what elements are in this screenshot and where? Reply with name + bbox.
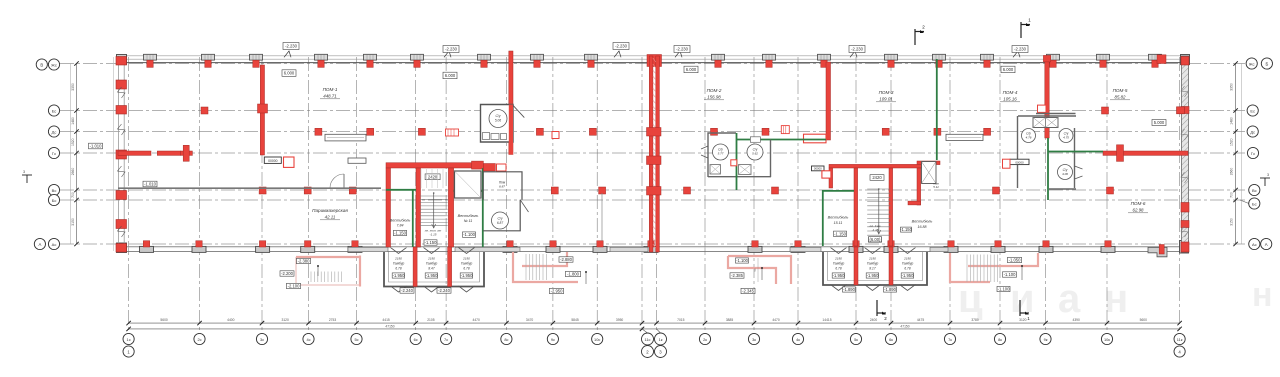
svg-text:-1.150: -1.150 bbox=[394, 231, 407, 236]
exterior stair S2 level box 1 bbox=[1008, 257, 1022, 262]
column red block bottom wall bbox=[1043, 241, 1049, 247]
svg-text:н: н bbox=[1252, 276, 1273, 314]
level box vestibule left bbox=[394, 230, 407, 235]
expansion joint block bbox=[647, 187, 662, 196]
level box vestibule right 1 bbox=[834, 231, 847, 236]
wall break mark left wall bbox=[118, 124, 126, 135]
column red block left wall bbox=[116, 57, 127, 66]
red fixture box ПОМ-4 top bbox=[1038, 105, 1047, 112]
svg-text:3885: 3885 bbox=[726, 318, 734, 322]
svg-text:47150: 47150 bbox=[385, 324, 394, 328]
axis bubble Бс left bbox=[48, 194, 59, 205]
axis line 5к bbox=[855, 57, 857, 333]
axis bubble 4с bottom bbox=[303, 333, 314, 344]
storage room dark walls bbox=[455, 171, 482, 198]
axis bubble 9с bottom bbox=[547, 333, 558, 344]
window pier column top wall bbox=[364, 54, 377, 60]
column base bottom wall bbox=[748, 246, 762, 252]
stair vestibule red wall top bbox=[386, 163, 481, 168]
svg-text:а: а bbox=[1058, 277, 1081, 321]
partition wall Парикмахерская bbox=[118, 187, 381, 189]
axis bubble 1 bottom overall bbox=[123, 346, 134, 357]
axis line В bbox=[60, 189, 1245, 191]
svg-text:16.88: 16.88 bbox=[918, 225, 927, 229]
svg-text:Б: Б bbox=[1265, 61, 1268, 66]
svg-text:2: 2 bbox=[884, 316, 887, 321]
svg-text:7к: 7к bbox=[948, 337, 952, 342]
svg-text:3350: 3350 bbox=[1230, 83, 1234, 91]
red fixture on wall ПОМ-5 bbox=[1117, 145, 1124, 162]
level dimension box above top wall bbox=[674, 46, 690, 53]
svg-text:1520: 1520 bbox=[71, 138, 75, 146]
svg-text:3780: 3780 bbox=[971, 318, 979, 322]
tambour T2 red wall 2 bbox=[889, 247, 893, 285]
axis bubble 6к bottom bbox=[885, 333, 896, 344]
svg-text:-1.950: -1.950 bbox=[393, 273, 406, 278]
shower tray left bbox=[710, 165, 721, 175]
stair flight right section bbox=[867, 189, 890, 235]
axis bubble 4к bottom bbox=[792, 333, 803, 344]
svg-text:Тамбур: Тамбур bbox=[902, 262, 914, 266]
toilet circle ПОМ-4 c bbox=[1058, 165, 1073, 180]
level dimension box above top wall bbox=[443, 46, 459, 53]
axis bubble 3 bottom overall bbox=[655, 346, 667, 358]
axis bubble А right bbox=[1261, 238, 1272, 249]
svg-text:Тамбур: Тамбур bbox=[426, 262, 438, 266]
column base bottom wall bbox=[192, 246, 206, 252]
axis line 7с bbox=[445, 57, 447, 333]
svg-text:5845: 5845 bbox=[571, 318, 579, 322]
svg-text:2660: 2660 bbox=[71, 168, 75, 176]
svg-text:-2.950: -2.950 bbox=[551, 289, 564, 294]
column red block bottom wall bbox=[795, 241, 801, 247]
svg-text:-2.230: -2.230 bbox=[445, 47, 458, 52]
lintel label box stairwell bbox=[870, 175, 884, 181]
section mark 2 top bbox=[915, 29, 924, 45]
red pylon cross at axis Г bbox=[181, 151, 193, 155]
wall break mark right wall bbox=[1181, 226, 1188, 237]
svg-text:-2.880: -2.880 bbox=[560, 257, 573, 262]
svg-text:-2.100: -2.100 bbox=[288, 284, 301, 289]
expansion joint double red wall bbox=[649, 56, 653, 252]
exterior stair S0 level box 3 bbox=[287, 283, 301, 288]
column axis В row bbox=[551, 187, 558, 194]
svg-text:3: 3 bbox=[1267, 173, 1269, 177]
svg-text:62.98: 62.98 bbox=[1133, 207, 1145, 212]
level box below top wall 1 bbox=[282, 70, 296, 77]
red fixture box on top bar bbox=[497, 164, 507, 171]
ventilation unit box bbox=[325, 134, 366, 141]
svg-text:Ас: Ас bbox=[52, 242, 57, 247]
red wall ПОМ-4 vertical upper bbox=[1045, 57, 1049, 138]
column red block bottom wall bbox=[888, 241, 894, 247]
column axis В row bbox=[259, 187, 266, 194]
axis line 7к bbox=[949, 57, 951, 333]
toilet fixture circle С/у ПОМ-1 bbox=[489, 110, 507, 128]
column axis Е row right bbox=[1102, 107, 1109, 114]
column red block top wall bbox=[588, 60, 594, 67]
svg-text:2190: 2190 bbox=[868, 257, 876, 261]
svg-text:5с: 5с bbox=[354, 337, 358, 342]
exterior stair S3 level box 2 bbox=[730, 273, 744, 278]
axis line Б bbox=[60, 199, 1245, 201]
axis bubble 7с bottom bbox=[441, 333, 452, 344]
svg-text:-2.230: -2.230 bbox=[615, 44, 628, 49]
level dimension box above top wall bbox=[849, 46, 865, 53]
column red block left wall bbox=[116, 80, 127, 89]
svg-text:6.000: 6.000 bbox=[1003, 67, 1014, 72]
svg-text:А: А bbox=[1265, 242, 1268, 247]
tambour T1 below level box 1 bbox=[400, 288, 414, 293]
top exterior wall bbox=[118, 55, 1188, 57]
window break mark top wall bbox=[850, 51, 857, 57]
level box below top wall 2 bbox=[443, 72, 457, 79]
exterior stair S1 walls bbox=[513, 252, 578, 282]
axis bubble Б right bbox=[1261, 58, 1272, 69]
column red block top wall bbox=[318, 60, 324, 67]
bathroom walls С/у ПОМ-1 bbox=[481, 105, 514, 143]
svg-text:-2.240: -2.240 bbox=[438, 288, 451, 293]
red wall axis Г left segment 1 bbox=[118, 151, 151, 155]
svg-text:-2.230: -2.230 bbox=[851, 47, 864, 52]
column red block top wall bbox=[888, 60, 894, 67]
window pier column top wall bbox=[144, 54, 157, 60]
column red block right wall bbox=[1181, 221, 1189, 228]
door splay bathroom left bbox=[701, 146, 708, 158]
column red block left wall bbox=[116, 191, 127, 200]
window break mark top wall bbox=[444, 51, 451, 57]
stair flight left section bbox=[420, 196, 448, 226]
red meter fixture ПОМ-2 bbox=[804, 134, 827, 143]
section mark 1 top bbox=[1021, 22, 1030, 38]
column axis Д row bbox=[536, 128, 543, 135]
svg-text:Ес: Ес bbox=[1250, 108, 1255, 113]
threshold strip bottom wall bbox=[930, 247, 948, 251]
svg-text:-1.150: -1.150 bbox=[834, 231, 847, 236]
left vertical dimension line bbox=[76, 64, 78, 245]
axis bubble 3с bottom bbox=[256, 333, 267, 344]
svg-text:-1.890: -1.890 bbox=[884, 287, 897, 292]
window break mark top wall bbox=[1013, 51, 1020, 57]
svg-text:6.78: 6.78 bbox=[463, 267, 469, 271]
green wall vestibule left vertical bbox=[412, 190, 414, 247]
electrical room walls bbox=[483, 172, 522, 200]
axis bubble Вс left bbox=[48, 184, 59, 195]
svg-text:00000: 00000 bbox=[268, 159, 278, 163]
svg-text:448.71: 448.71 bbox=[323, 93, 337, 98]
column red block right wall bbox=[1181, 203, 1189, 213]
exterior stair S0 level box 2 bbox=[280, 271, 294, 276]
section mark 3 left bbox=[22, 175, 32, 183]
tambour T2 door swing bottom bbox=[865, 285, 881, 291]
svg-text:47150: 47150 bbox=[900, 324, 909, 328]
tambour T1 below level box 2 bbox=[437, 288, 451, 293]
svg-text:Жс: Жс bbox=[1249, 61, 1255, 66]
svg-text:3: 3 bbox=[23, 170, 25, 174]
small red box ПОМ-1 bbox=[552, 132, 559, 139]
column base bottom wall bbox=[348, 246, 362, 252]
svg-text:6.78: 6.78 bbox=[395, 267, 401, 271]
column axis В row bbox=[772, 187, 779, 194]
svg-text:15.11: 15.11 bbox=[834, 221, 843, 225]
svg-text:-2.385: -2.385 bbox=[731, 273, 744, 278]
right exterior wall hatched bbox=[1182, 56, 1189, 252]
svg-text:ц: ц bbox=[958, 277, 983, 321]
svg-text:2: 2 bbox=[922, 25, 925, 30]
axis bubble 10с bottom bbox=[592, 333, 603, 344]
svg-text:105.16: 105.16 bbox=[1003, 96, 1017, 101]
column red block top wall bbox=[821, 60, 827, 67]
svg-text:-1.150: -1.150 bbox=[425, 240, 438, 245]
expansion joint block bbox=[647, 128, 662, 137]
window pier column top wall bbox=[250, 54, 263, 60]
svg-text:Гс: Гс bbox=[52, 151, 56, 156]
column red block bottom wall bbox=[597, 241, 603, 247]
svg-text:-1.15: -1.15 bbox=[872, 228, 879, 232]
svg-text:2420: 2420 bbox=[428, 174, 438, 179]
svg-text:-2.230: -2.230 bbox=[1014, 47, 1027, 52]
interior box ПОМ-5 level bbox=[1152, 120, 1166, 126]
svg-text:8с: 8с bbox=[504, 337, 508, 342]
stairwell red wall right vertical bbox=[889, 168, 893, 246]
column axis Д row bbox=[762, 128, 769, 135]
svg-text:ПОМ-6: ПОМ-6 bbox=[1131, 201, 1146, 206]
axis line 3к bbox=[753, 57, 755, 333]
window break mark top wall bbox=[675, 51, 682, 57]
svg-text:ПОМ-2: ПОМ-2 bbox=[707, 88, 722, 93]
svg-text:Вс: Вс bbox=[52, 188, 57, 193]
level box stair left bbox=[424, 240, 437, 245]
axis bubble Бс right bbox=[1240, 200, 1249, 204]
wall break mark right wall bbox=[1181, 86, 1188, 97]
svg-text:Тамбур: Тамбур bbox=[833, 262, 845, 266]
watermark циан bbox=[958, 276, 1273, 321]
svg-text:6.87: 6.87 bbox=[497, 221, 503, 225]
svg-text:5600: 5600 bbox=[1140, 318, 1148, 322]
axis line 3с bbox=[261, 57, 263, 333]
column red block bottom wall bbox=[143, 241, 149, 247]
bottom dimension line total bbox=[129, 328, 1180, 330]
svg-text:7с: 7с bbox=[444, 337, 448, 342]
svg-text:-1.890: -1.890 bbox=[843, 287, 856, 292]
level box below top wall 3 bbox=[684, 66, 698, 73]
column base bottom wall bbox=[849, 246, 863, 252]
stair vestibule red wall mid 1 bbox=[416, 168, 421, 247]
svg-text:6.000: 6.000 bbox=[686, 67, 697, 72]
svg-text:Вестибюль: Вестибюль bbox=[458, 214, 479, 218]
svg-text:8.47: 8.47 bbox=[428, 267, 434, 271]
column base bottom wall bbox=[593, 246, 607, 252]
green wall stairwell left bbox=[822, 190, 824, 246]
column base bottom wall bbox=[944, 246, 958, 252]
svg-text:9с: 9с bbox=[551, 337, 555, 342]
bottom wall corner column right bbox=[1180, 241, 1189, 254]
level dimension box above top wall bbox=[1012, 46, 1028, 53]
exterior stair S0 level box 1 bbox=[297, 258, 311, 263]
svg-text:2190: 2190 bbox=[903, 257, 911, 261]
svg-text:-1.950: -1.950 bbox=[867, 273, 880, 278]
axis bubble 9к bottom bbox=[1040, 333, 1051, 344]
svg-text:-1.010: -1.010 bbox=[144, 182, 157, 187]
svg-text:-1.100: -1.100 bbox=[1004, 272, 1017, 277]
svg-text:6с: 6с bbox=[414, 337, 418, 342]
radiator box 1 bbox=[348, 158, 366, 163]
stairwell red wall left short bbox=[829, 168, 833, 188]
svg-text:5.77: 5.77 bbox=[718, 152, 724, 156]
svg-text:2105: 2105 bbox=[427, 318, 435, 322]
svg-text:3к: 3к bbox=[752, 337, 756, 342]
svg-text:Гс: Гс bbox=[1251, 151, 1255, 156]
column red block top wall bbox=[367, 60, 373, 67]
svg-text:3950: 3950 bbox=[616, 318, 624, 322]
exterior stair S1 treads bbox=[526, 254, 546, 280]
svg-text:2190: 2190 bbox=[427, 257, 435, 261]
bathroom ПОМ-4 gray wall bottom bbox=[1049, 188, 1076, 190]
window pier column top wall bbox=[202, 54, 215, 60]
svg-text:1480: 1480 bbox=[1230, 117, 1234, 125]
tambour door swing bottom bbox=[391, 286, 407, 292]
svg-text:-2.345: -2.345 bbox=[742, 289, 755, 294]
svg-text:4400: 4400 bbox=[227, 318, 235, 322]
axis bubble Вс right bbox=[1249, 184, 1260, 195]
electric meter 00000 left bbox=[264, 157, 281, 163]
tambour T2 door swing bottom bbox=[831, 285, 847, 291]
svg-text:А: А bbox=[38, 242, 41, 247]
svg-text:10с: 10с bbox=[594, 337, 600, 342]
toilet circle ПОМ-4 b bbox=[1059, 129, 1073, 143]
axis bubble 2 bottom overall bbox=[642, 346, 654, 358]
window pier column top wall bbox=[763, 54, 776, 60]
vent shaft boxes ПОМ-4 bbox=[1033, 118, 1058, 128]
column axis В row bbox=[684, 187, 691, 194]
exterior stair S2 level box 3 bbox=[997, 286, 1010, 291]
svg-text:ПОМ-5: ПОМ-5 bbox=[1113, 88, 1128, 93]
svg-text:-1.050: -1.050 bbox=[1009, 258, 1022, 263]
svg-text:7015: 7015 bbox=[677, 318, 685, 322]
svg-text:700: 700 bbox=[71, 192, 75, 198]
lintel label box stair bbox=[425, 174, 440, 180]
wall break mark right wall bbox=[1181, 129, 1188, 140]
svg-text:Парикмахерская: Парикмахерская bbox=[312, 208, 348, 213]
column red block top wall bbox=[984, 60, 990, 67]
svg-text:2190: 2190 bbox=[462, 257, 470, 261]
tambour T2 below level box 1 bbox=[843, 287, 856, 292]
axis bubble Жс right bbox=[1246, 58, 1257, 69]
svg-text:№ 11: № 11 bbox=[464, 219, 473, 223]
tambour T2 door swing top bbox=[865, 248, 881, 254]
bottom exterior wall bbox=[118, 246, 1188, 248]
axis bubble 3к bottom bbox=[748, 333, 759, 344]
column base bottom wall bbox=[503, 246, 517, 252]
svg-text:5к: 5к bbox=[854, 337, 858, 342]
exterior stair S1 level box 3 bbox=[550, 288, 564, 293]
threshold strip bottom wall bbox=[455, 247, 520, 251]
exterior stair S2 walls bbox=[950, 253, 990, 282]
column axis В row bbox=[599, 187, 606, 194]
svg-text:5.62: 5.62 bbox=[752, 152, 758, 156]
tambour T2 red wall 1 bbox=[854, 247, 858, 285]
axis line 1к bbox=[656, 57, 658, 333]
svg-text:В: В bbox=[40, 62, 43, 67]
axis line 4к bbox=[797, 57, 799, 333]
svg-text:4390: 4390 bbox=[1073, 318, 1081, 322]
svg-text:н: н bbox=[1104, 277, 1128, 321]
bathroom ПОМ-4 gray wall top bbox=[1018, 115, 1076, 117]
green wall bathrooms vertical bbox=[736, 133, 738, 190]
exterior stair S1 leader dot bbox=[585, 271, 587, 273]
column red block top wall bbox=[414, 60, 420, 67]
axis line 8с bbox=[505, 57, 507, 333]
svg-text:3150: 3150 bbox=[71, 218, 75, 226]
svg-text:4415: 4415 bbox=[382, 318, 390, 322]
level dimension box above top wall bbox=[613, 43, 629, 50]
window pier column top wall bbox=[885, 54, 898, 60]
red wall bar near ПОМ-3 green wall bbox=[917, 161, 940, 165]
column red block bottom wall bbox=[648, 241, 654, 247]
svg-text:Вестибюль: Вестибюль bbox=[828, 216, 849, 220]
stairwell red wall far right vertical bbox=[917, 168, 921, 205]
column red block right wall bbox=[1181, 107, 1189, 114]
svg-text:Ас: Ас bbox=[1252, 242, 1257, 247]
red block top wall near 10к bbox=[1157, 55, 1166, 64]
axis bubble 1к bottom bbox=[657, 329, 661, 333]
column axis Д row bbox=[418, 128, 425, 135]
bathroom ПОМ-4 gray wall left bbox=[1017, 116, 1019, 188]
red wall ПОМ-5 horizontal at axis Г bbox=[1103, 151, 1188, 155]
level dimension box above top wall bbox=[283, 43, 299, 50]
column axis Д row bbox=[589, 128, 596, 135]
exterior stair S3 mini dim bbox=[757, 258, 759, 282]
svg-text:Бс: Бс bbox=[1252, 201, 1257, 206]
toilet circle С/у 5.62 bbox=[747, 144, 763, 160]
svg-text:Вестибюль: Вестибюль bbox=[390, 219, 411, 223]
svg-text:2420: 2420 bbox=[872, 175, 882, 180]
tambour door swing top bbox=[424, 248, 440, 254]
svg-text:2660: 2660 bbox=[1230, 168, 1234, 176]
axis line 9с bbox=[552, 57, 554, 333]
svg-text:-1.100: -1.100 bbox=[998, 287, 1011, 292]
svg-text:00000: 00000 bbox=[814, 167, 822, 171]
window pier column top wall bbox=[478, 54, 491, 60]
column red block bottom wall bbox=[1105, 241, 1111, 247]
wall break mark left wall bbox=[118, 87, 126, 98]
column axis Д row bbox=[882, 128, 889, 135]
red fixture ПОМ-4 meter bbox=[1003, 159, 1011, 168]
column red block bottom wall bbox=[305, 241, 311, 247]
svg-text:1480: 1480 bbox=[71, 117, 75, 125]
level box axis Г left 1 bbox=[89, 143, 103, 149]
tambour T2 door swing top bbox=[831, 248, 847, 254]
column base bottom wall bbox=[1039, 246, 1053, 252]
axis bubble 6с bottom bbox=[410, 333, 421, 344]
column axis Е row bbox=[201, 107, 208, 114]
wash fixtures С/у ПОМ-1 bbox=[483, 133, 490, 140]
column axis В row bbox=[349, 187, 356, 194]
svg-text:2с: 2с bbox=[197, 337, 201, 342]
svg-text:00000: 00000 bbox=[1015, 160, 1024, 164]
section mark 3 right bbox=[1260, 178, 1270, 186]
window display box ПОМ-3 bbox=[946, 134, 983, 140]
threshold strip bottom wall bbox=[348, 247, 388, 251]
column red block top wall bbox=[1100, 60, 1106, 67]
svg-text:2к: 2к bbox=[703, 337, 707, 342]
svg-text:Вс: Вс bbox=[1252, 188, 1257, 193]
stairwell red wall stub bbox=[908, 201, 921, 205]
toilet circle С/у vestibule bbox=[492, 212, 509, 229]
axis line 5с bbox=[356, 57, 358, 333]
svg-text:8.17: 8.17 bbox=[869, 267, 875, 271]
axis line 6к bbox=[890, 57, 892, 333]
